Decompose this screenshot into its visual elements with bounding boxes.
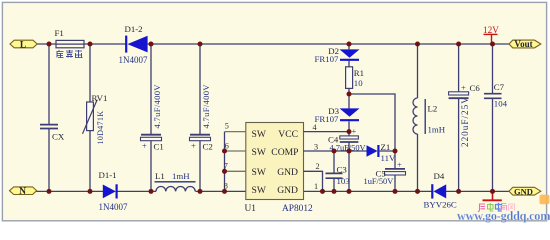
svg-text:R1: R1 — [354, 68, 364, 78]
pin 8 (SW) — [224, 182, 228, 191]
wire: top rail fuse to D1-2 cathode — [84, 43, 126, 45]
inductor L1 — [155, 171, 196, 191]
svg-text:C1: C1 — [154, 141, 164, 151]
wire: L2 branch vertical x=417.5 — [417, 44, 419, 191]
pin 3 (COMP) wire to Z1 — [304, 142, 367, 151]
wire: SW bus vertical x=224.5 — [224, 132, 226, 192]
wire: top rail left segment L to fuse — [34, 43, 56, 45]
pin 1 (GND) on rail — [314, 182, 318, 191]
svg-text:N: N — [19, 187, 26, 197]
svg-text:SW: SW — [252, 185, 267, 196]
port Vout — [509, 39, 541, 49]
svg-text:F1: F1 — [55, 28, 64, 38]
wire: C6 branch vertical x=458.6 — [458, 44, 460, 191]
capacitor C2 (electrolytic) — [190, 84, 213, 152]
svg-text:D4: D4 — [434, 171, 445, 181]
diode D4 — [424, 171, 457, 210]
watermark logo 广电电器网 — [478, 203, 515, 212]
svg-text:+: + — [142, 141, 147, 151]
svg-text:1uF/50V: 1uF/50V — [364, 177, 394, 186]
svg-text:SW: SW — [252, 147, 267, 158]
capacitor CX — [40, 125, 65, 142]
svg-text:C7: C7 — [494, 82, 505, 92]
wire: CX branch vertical x=49 — [48, 44, 50, 191]
diode D1-2 — [119, 24, 148, 65]
svg-text:BYV26C: BYV26C — [424, 199, 457, 209]
svg-text:+: + — [461, 82, 466, 92]
svg-text:5: 5 — [225, 122, 229, 131]
zener Z1 — [367, 142, 396, 163]
wire: bottom rail N to D1-1 — [36, 190, 103, 192]
diode D2 — [315, 46, 360, 64]
pin 4 (VCC) wire to D3/C4 node — [304, 123, 350, 132]
svg-text:C6: C6 — [470, 83, 481, 93]
pin 6 (SW) — [225, 141, 246, 151]
wire: C1 branch vertical x=151 — [150, 44, 152, 191]
svg-text:C3: C3 — [337, 164, 348, 174]
diode D3 — [315, 106, 360, 124]
svg-text:C2: C2 — [203, 141, 213, 151]
capacitor C5 (electrolytic) — [364, 159, 406, 186]
svg-text:4.7uF/400V: 4.7uF/400V — [201, 84, 211, 129]
junction dots middle nodes — [222, 92, 398, 174]
svg-text:11V: 11V — [381, 153, 396, 163]
wire: D2 R1 D3 C4 chain vertical x=349 — [348, 44, 350, 191]
svg-text:GND: GND — [514, 186, 533, 196]
svg-text:U1: U1 — [245, 204, 257, 214]
svg-text:VCC: VCC — [278, 129, 298, 140]
capacitor C1 (electrolytic) — [141, 84, 164, 152]
svg-text:L2: L2 — [428, 104, 438, 114]
junction dots top rail — [47, 42, 496, 47]
svg-text:220uF/25V: 220uF/25V — [460, 96, 470, 147]
pin 7 (SW) — [224, 162, 246, 172]
svg-text:4: 4 — [312, 123, 316, 132]
svg-text:RV1: RV1 — [92, 93, 108, 103]
svg-text:Vout: Vout — [514, 39, 532, 49]
svg-text:www.go-gddq.com: www.go-gddq.com — [457, 209, 550, 223]
svg-text:+: + — [397, 159, 402, 169]
junction dots bottom rail — [47, 189, 496, 194]
svg-text:103: 103 — [337, 176, 351, 186]
svg-text:D1-1: D1-1 — [99, 170, 117, 180]
capacitor C6 (electrolytic) — [449, 82, 481, 147]
wire: bottom rail D1-1 to L1 — [117, 190, 156, 192]
svg-text:SW: SW — [252, 129, 267, 140]
op IC U1 AP8012 body — [245, 123, 314, 215]
wire: RV1 branch vertical x=90 — [89, 44, 91, 191]
svg-text:AP8012: AP8012 — [282, 204, 313, 214]
svg-text:1N4007: 1N4007 — [119, 55, 148, 65]
resistor R1 — [346, 67, 364, 89]
svg-text:COMP: COMP — [271, 147, 298, 158]
svg-text:+: + — [352, 126, 357, 136]
svg-text:3: 3 — [314, 142, 318, 151]
wire: C3 branch vertical x=334 — [333, 151, 335, 191]
wire: bottom rail IC pin1 to D4 — [304, 190, 433, 192]
wire: top rail D1-2 to Vout — [148, 43, 510, 45]
svg-text:CX: CX — [52, 132, 65, 142]
wire: C2 branch vertical x=200 — [199, 44, 201, 191]
svg-text:1mH: 1mH — [172, 171, 190, 181]
power flag 12V — [483, 25, 499, 44]
svg-text:12V: 12V — [483, 25, 499, 35]
svg-text:GND: GND — [277, 167, 298, 178]
wire: C5 column below — [394, 151, 396, 191]
svg-text:10: 10 — [354, 78, 363, 88]
svg-text:1N4007: 1N4007 — [99, 202, 128, 212]
svg-text:FR107: FR107 — [315, 54, 340, 64]
wire: bottom rail D4 to GND flag — [446, 190, 510, 192]
pin 2 (GND) elbow down to rail — [304, 162, 323, 192]
fuse F1 — [55, 28, 85, 48]
svg-text:Z1: Z1 — [381, 142, 391, 152]
svg-text:2: 2 — [315, 162, 319, 171]
diode D1-1 — [99, 170, 128, 212]
svg-text:GND: GND — [277, 185, 298, 196]
pin 5 (SW) — [225, 122, 246, 132]
svg-text:L1: L1 — [155, 171, 165, 181]
inductor L2 — [413, 98, 446, 135]
port L — [10, 40, 37, 50]
svg-text:L: L — [20, 40, 26, 50]
port N — [10, 187, 37, 197]
power ground bar symbol — [483, 191, 502, 200]
svg-text:1mH: 1mH — [428, 125, 446, 135]
fuse value 保险丝 (CJK glyph approximation) — [57, 50, 83, 58]
wire: elbow from R1/D3 node to Z1/C5 column — [349, 94, 395, 151]
svg-text:104: 104 — [494, 99, 508, 109]
svg-text:1: 1 — [314, 182, 318, 191]
svg-text:+: + — [191, 141, 196, 151]
svg-text:FR107: FR107 — [315, 114, 340, 124]
varistor RV1 — [83, 93, 108, 144]
capacitor C3 — [326, 164, 351, 185]
capacitor C4 (electrolytic) — [328, 126, 366, 152]
svg-text:10D471K: 10D471K — [96, 111, 105, 145]
svg-text:D1-2: D1-2 — [125, 24, 143, 34]
port GND (output) — [509, 186, 541, 196]
watermark icon block — [540, 195, 550, 205]
svg-text:SW: SW — [252, 167, 267, 178]
wire: bottom rail L1 to IC pin8 — [196, 190, 246, 192]
svg-text:4.7uF/400V: 4.7uF/400V — [152, 84, 162, 129]
wire: C7 branch vertical x=492.5 — [492, 44, 494, 191]
capacitor C7 — [484, 82, 508, 109]
